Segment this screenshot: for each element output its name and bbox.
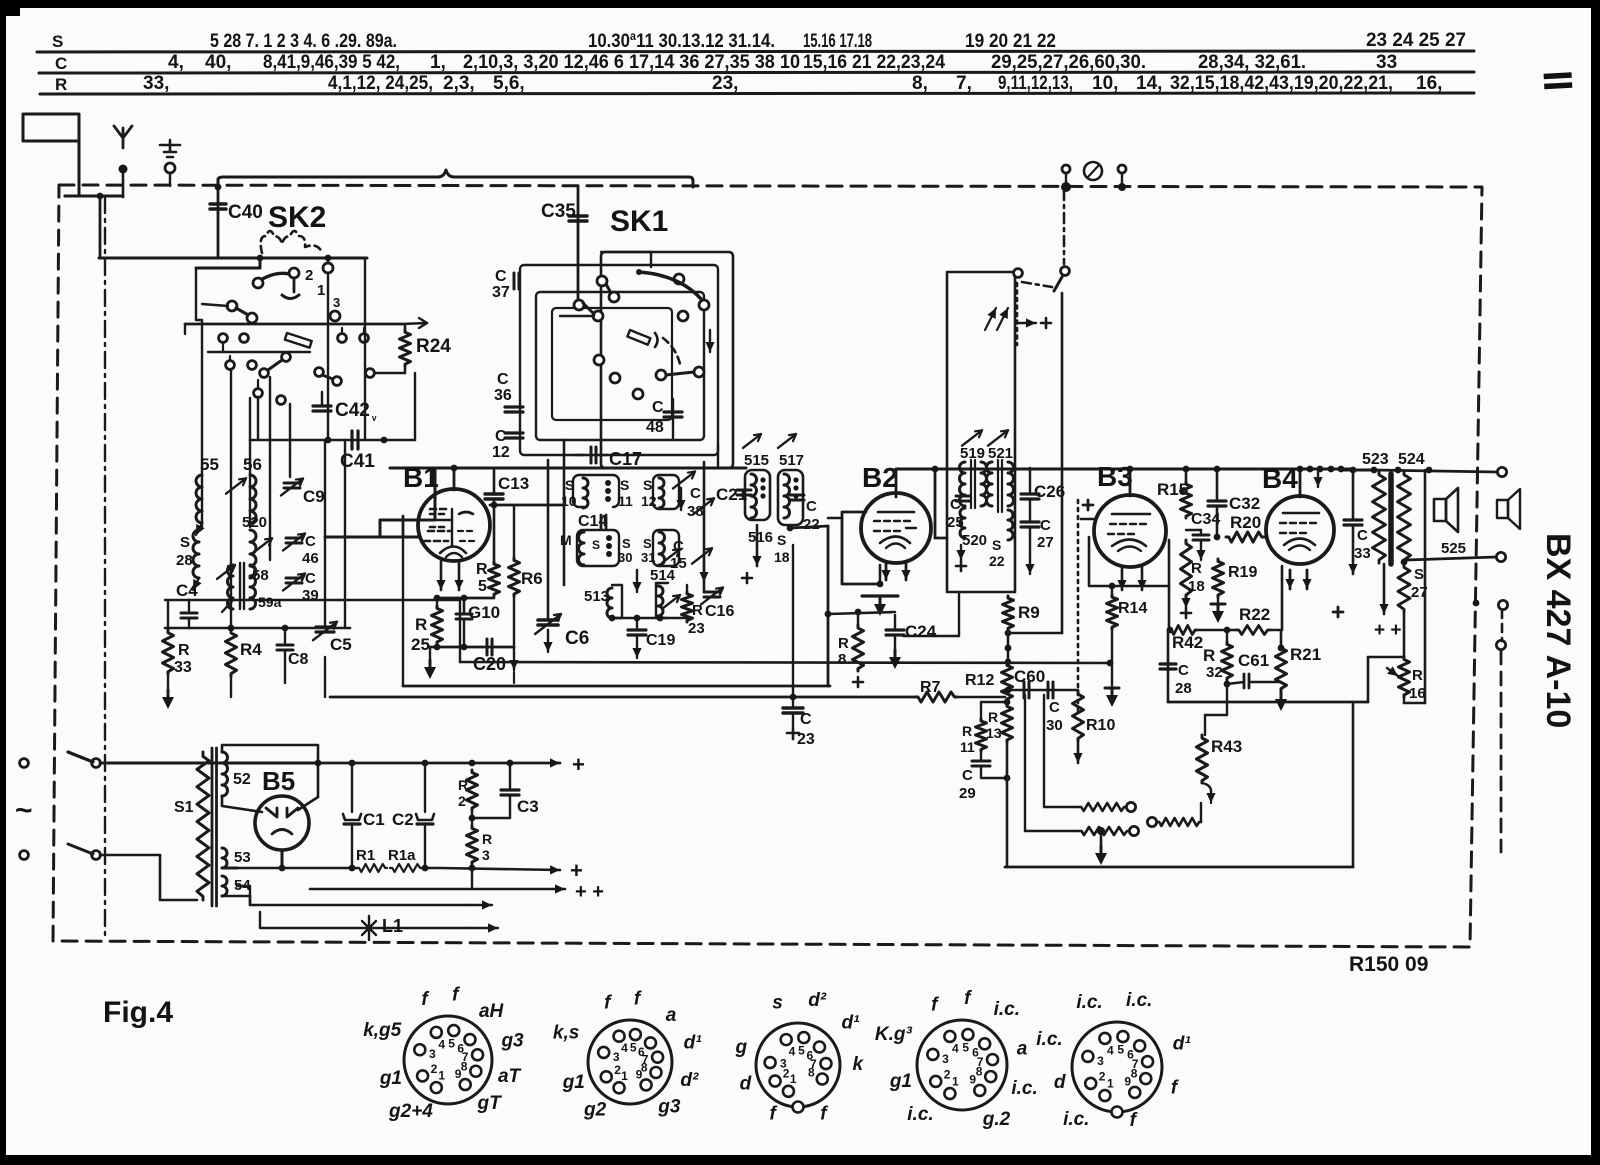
svg-text:2: 2 [458, 793, 466, 809]
svg-text:d: d [740, 1074, 752, 1095]
capacitor C20 [473, 639, 506, 674]
svg-text:4,1,12, 24,25,: 4,1,12, 24,25, [328, 73, 433, 94]
svg-text:517: 517 [779, 452, 804, 469]
svg-text:R43: R43 [1211, 737, 1242, 756]
wire B2 plate lead [896, 466, 947, 538]
svg-text:4: 4 [438, 1037, 445, 1051]
svg-text:R: R [988, 709, 998, 725]
svg-text:g1: g1 [562, 1072, 585, 1093]
svg-text:3: 3 [333, 295, 340, 310]
resistor R1a [388, 847, 583, 883]
switch mains 2 [20, 844, 197, 900]
resistor R43 [1197, 702, 1243, 803]
svg-text:53: 53 [234, 849, 251, 866]
resistor R42 [1167, 626, 1236, 653]
wire chassis dash-dot line [104, 197, 106, 941]
wire B2 cathode arrows [880, 562, 911, 584]
svg-text:523: 523 [1362, 451, 1389, 468]
capacitor C27 [1021, 499, 1054, 574]
capacitor C33 [1344, 467, 1371, 574]
wire dashed chassis border [53, 185, 1482, 947]
svg-text:C: C [652, 399, 664, 416]
svg-text:C24: C24 [905, 622, 937, 641]
resistor R15 [1157, 466, 1192, 518]
svg-text:1,: 1, [430, 52, 446, 73]
svg-text:C: C [1049, 699, 1060, 716]
svg-text:R42: R42 [1172, 633, 1203, 652]
node R row numbers [143, 73, 1442, 94]
svg-text:22: 22 [989, 553, 1005, 569]
svg-text:a: a [666, 1005, 677, 1026]
svg-text:2: 2 [431, 1062, 438, 1076]
resistor R14 [1105, 586, 1147, 707]
capacitor C42 [313, 392, 377, 423]
svg-text:B1: B1 [403, 462, 439, 493]
svg-text:SK2: SK2 [268, 201, 326, 234]
capacitor C38 [687, 485, 714, 520]
svg-text:33: 33 [1354, 545, 1371, 562]
svg-text:R9: R9 [1018, 603, 1040, 622]
svg-text:C: C [55, 54, 67, 73]
svg-text:1: 1 [438, 1069, 445, 1083]
resistor R8 [838, 612, 864, 687]
svg-text:3: 3 [1097, 1054, 1104, 1068]
transformer S1 primary [174, 752, 209, 900]
svg-text:1: 1 [317, 282, 325, 299]
switch SK2 contacts [185, 258, 427, 460]
svg-text:23 24 25 27: 23 24 25 27 [1366, 30, 1466, 51]
svg-text:S: S [777, 532, 786, 548]
svg-text:C: C [806, 498, 817, 515]
svg-text:9,11,12,13,: 9,11,12,13, [998, 73, 1073, 94]
svg-text:31: 31 [641, 550, 655, 565]
transformer S13 [584, 585, 622, 618]
wire B3 plate stem [1127, 466, 1134, 496]
svg-text:8: 8 [1131, 1067, 1138, 1081]
svg-text:22: 22 [803, 516, 820, 533]
resistor R4 [226, 628, 263, 697]
svg-text:7,: 7, [956, 73, 972, 94]
svg-text:18: 18 [1188, 578, 1205, 595]
tube B3 [1094, 461, 1166, 567]
svg-text:C: C [305, 533, 316, 550]
svg-text:2,3,: 2,3, [443, 73, 475, 94]
resistor R6 [509, 505, 543, 647]
svg-text:30: 30 [1046, 717, 1063, 734]
capacitor C60 [1005, 667, 1079, 831]
ground below R25 [424, 647, 436, 679]
resistor R9 [1003, 592, 1063, 665]
svg-text:1: 1 [952, 1075, 959, 1089]
wire plus-plus line [310, 868, 604, 903]
switch SK1 rotor contacts [560, 269, 715, 399]
svg-text:C19: C19 [646, 632, 675, 649]
svg-text:23: 23 [688, 620, 705, 637]
transformer 58/59a [217, 563, 282, 612]
svg-text:k,s: k,s [553, 1023, 579, 1044]
svg-text:C32: C32 [1229, 494, 1260, 513]
svg-text:14,: 14, [1136, 73, 1162, 94]
tube B1 [403, 462, 490, 561]
svg-text:C1: C1 [363, 810, 385, 829]
svg-text:5: 5 [962, 1040, 969, 1054]
resistor R24 [400, 324, 452, 373]
svg-text:28,34, 32,61.: 28,34, 32,61. [1198, 52, 1306, 73]
capacitor C35 [541, 187, 587, 305]
svg-text:R1: R1 [356, 847, 375, 864]
wire B1 cathode arrows [436, 561, 463, 590]
svg-text:29,25,27,26,60,30.: 29,25,27,26,60,30. [991, 52, 1146, 73]
capacitor C39 [283, 570, 319, 604]
wire B3 cathode arrows [1117, 567, 1146, 590]
svg-text:16,: 16, [1416, 73, 1442, 94]
capacitor C48 [646, 399, 682, 440]
svg-text:R: R [55, 75, 67, 94]
svg-text:M: M [560, 532, 572, 548]
capacitor C21 [716, 485, 751, 504]
resistor R2 [458, 770, 478, 810]
tube B5 [255, 766, 309, 868]
svg-text:8: 8 [808, 1066, 815, 1080]
ground B1 screen [509, 647, 518, 683]
svg-text:5: 5 [1117, 1042, 1124, 1056]
svg-text:9: 9 [636, 1067, 643, 1081]
svg-text:4: 4 [1107, 1043, 1114, 1057]
svg-text:C16: C16 [705, 603, 734, 620]
tube socket 5 bottom pin [1112, 1107, 1123, 1118]
svg-text:a: a [1017, 1038, 1028, 1059]
svg-text:516: 516 [748, 529, 773, 546]
node C row numbers [168, 52, 1397, 73]
svg-text:9: 9 [455, 1067, 462, 1081]
capacitor C29 [959, 742, 1010, 867]
node terminal left [1061, 165, 1071, 192]
svg-text:5: 5 [478, 578, 487, 595]
svg-text:10,: 10, [1092, 73, 1118, 94]
resistor R13 [981, 699, 1013, 742]
wire bottom box right [1352, 704, 1355, 867]
capacitor C17 [575, 447, 642, 469]
svg-text:5: 5 [448, 1036, 455, 1050]
tube B2 [861, 462, 931, 563]
switch SK1 wiring boxes [520, 252, 733, 468]
svg-text:R: R [476, 561, 488, 578]
svg-text:519: 519 [960, 445, 985, 462]
resistor R23 [682, 592, 705, 637]
inductor 56 [226, 455, 262, 523]
wire band indicator arrows [962, 308, 1008, 446]
resistor R22 [1236, 605, 1281, 635]
resistor R33 [163, 600, 192, 676]
node terminal right [1118, 165, 1126, 191]
svg-text:C8: C8 [288, 651, 309, 668]
svg-text:C: C [962, 767, 973, 784]
wire main grid bus [390, 467, 746, 470]
svg-text:R: R [482, 831, 492, 847]
svg-text:S: S [180, 534, 190, 551]
wire S row rule [37, 51, 1474, 52]
transformer M [560, 530, 619, 566]
svg-text:aH: aH [479, 1001, 505, 1022]
svg-text:25: 25 [947, 514, 964, 531]
svg-text:12: 12 [641, 493, 657, 509]
resistor R1 [237, 847, 475, 872]
wire plate rail [896, 468, 1352, 471]
switch dial lamp [1014, 190, 1070, 291]
svg-text:32,15,18,42,43,19,20,22,21,: 32,15,18,42,43,19,20,22,21, [1170, 73, 1393, 94]
svg-text:i.c.: i.c. [1011, 1078, 1037, 1099]
svg-text:C: C [673, 538, 684, 555]
transformer S21/S22 [987, 445, 1014, 569]
svg-text:d: d [1054, 1072, 1066, 1093]
tube socket 3 bottom pin [793, 1102, 804, 1113]
svg-text:R14: R14 [1118, 600, 1147, 617]
svg-text:4: 4 [952, 1041, 959, 1055]
svg-text:d¹: d¹ [841, 1012, 860, 1033]
svg-text:B4: B4 [1262, 463, 1298, 494]
capacitor C30 [1046, 699, 1063, 734]
svg-text:513: 513 [584, 588, 609, 605]
svg-text:+: + [572, 752, 585, 777]
wire dial lamp feed [1017, 283, 1062, 592]
svg-text:C4: C4 [176, 581, 198, 600]
svg-text:R: R [1412, 667, 1423, 684]
svg-text:40,: 40, [205, 52, 231, 73]
capacitor C36 [494, 371, 523, 412]
svg-text:aT: aT [498, 1066, 522, 1087]
svg-text:2: 2 [944, 1068, 951, 1082]
svg-text:1: 1 [790, 1072, 797, 1086]
resistor R18 [1181, 540, 1205, 618]
transformer S12 [641, 472, 695, 510]
svg-text:33: 33 [174, 659, 192, 676]
svg-text:S1: S1 [174, 799, 194, 816]
svg-text:46: 46 [302, 550, 319, 567]
svg-text:i.c.: i.c. [1076, 992, 1102, 1013]
capacitor C12 [492, 428, 523, 461]
capacitor C19 [628, 618, 675, 658]
svg-text:S: S [992, 537, 1001, 553]
svg-text:g1: g1 [379, 1068, 402, 1089]
svg-text:~: ~ [15, 794, 33, 827]
capacitor C14 [578, 513, 607, 530]
svg-text:55: 55 [200, 455, 219, 474]
svg-text:R20: R20 [1230, 513, 1261, 532]
capacitor C9 [281, 479, 325, 506]
capacitor C34 [1186, 511, 1220, 560]
svg-text:2: 2 [305, 267, 313, 284]
svg-text:R: R [178, 642, 190, 659]
svg-text:g3: g3 [657, 1096, 681, 1117]
wire R16 feed [1368, 657, 1404, 702]
svg-text:8,41,9,46,39 5 42,: 8,41,9,46,39 5 42, [263, 52, 400, 73]
wire SK2 top bus [99, 255, 367, 262]
speaker 525 [1434, 488, 1466, 557]
svg-text:5,6,: 5,6, [493, 73, 525, 94]
svg-text:28: 28 [176, 552, 193, 569]
svg-text:11: 11 [960, 739, 975, 755]
wire left links [165, 600, 350, 697]
svg-text:B2: B2 [862, 462, 898, 493]
wire SK2 down leads [202, 258, 415, 470]
svg-text:R: R [1203, 646, 1215, 665]
svg-text:C2: C2 [392, 810, 414, 829]
svg-text:C35: C35 [541, 201, 576, 222]
wire B3 cathode box [1089, 537, 1169, 630]
svg-text:4: 4 [621, 1041, 628, 1055]
inductor S28 [176, 530, 202, 590]
svg-text:s: s [772, 993, 783, 1014]
resistor R3 [467, 810, 493, 868]
svg-text:B5: B5 [262, 766, 295, 796]
svg-text:i.c.: i.c. [907, 1104, 933, 1125]
svg-text:33,: 33, [143, 73, 169, 94]
wire heater line [237, 886, 492, 910]
svg-text:d¹: d¹ [684, 1033, 703, 1054]
svg-text:5 28 7. 1 2 3 4. 6 .29. 89a.: 5 28 7. 1 2 3 4. 6 .29. 89a. [210, 31, 397, 52]
svg-text:Fig.4: Fig.4 [103, 996, 173, 1029]
capacitor C4 [176, 581, 198, 628]
svg-text:28: 28 [1175, 680, 1192, 697]
wire bottom bus 2 [330, 696, 917, 699]
svg-text:i.c.: i.c. [1063, 1109, 1089, 1130]
resistor R25 [411, 598, 443, 654]
svg-text:3: 3 [942, 1052, 949, 1066]
svg-text:S: S [622, 536, 631, 551]
inductor 520 [242, 514, 272, 578]
tube B5 cathode lead [279, 850, 286, 871]
svg-text:R1a: R1a [388, 847, 416, 864]
svg-text:9: 9 [969, 1073, 976, 1087]
svg-text:27: 27 [1037, 534, 1054, 551]
wire B4 top net [1262, 466, 1344, 537]
svg-text:36: 36 [494, 387, 512, 404]
svg-text:15,16 21 22,23,24: 15,16 21 22,23,24 [803, 52, 945, 73]
svg-text:8: 8 [461, 1059, 468, 1073]
svg-text:C17: C17 [609, 449, 642, 469]
capacitor C26 [1021, 468, 1065, 501]
capacitor C37 [492, 268, 519, 301]
capacitor C32 [1208, 466, 1260, 537]
resistor heater chain 2 [1079, 826, 1139, 835]
transformer S19/S20 [960, 445, 988, 549]
antenna plate [23, 114, 79, 141]
node equals mark [1544, 72, 1573, 89]
ground below B2 [862, 596, 898, 616]
svg-text:C5: C5 [330, 635, 352, 654]
resistor R21 [1275, 630, 1321, 711]
capacitor C16 [701, 588, 734, 620]
svg-text:29: 29 [959, 785, 976, 802]
svg-text:B3: B3 [1097, 461, 1133, 492]
svg-text:514: 514 [650, 567, 676, 584]
resistor R19 [1211, 559, 1257, 623]
inductor 55 [196, 455, 219, 535]
svg-text:C: C [1040, 517, 1051, 534]
wire R row rule [40, 93, 1474, 94]
svg-text:521: 521 [988, 445, 1013, 462]
svg-text:g2: g2 [583, 1100, 607, 1121]
svg-text:11: 11 [618, 493, 633, 509]
svg-text:C: C [497, 371, 509, 388]
resistor R12 [965, 663, 1013, 701]
capacitor C23 [783, 545, 815, 748]
svg-text:R19: R19 [1228, 564, 1257, 581]
ground S16 [742, 525, 762, 583]
svg-text:525: 525 [1441, 540, 1466, 557]
transformer S30/S31 [618, 530, 680, 592]
transformer S3 [222, 848, 251, 868]
svg-text:3: 3 [429, 1047, 436, 1061]
svg-text:BX 427 A-10: BX 427 A-10 [1539, 533, 1577, 728]
transformer S4 [222, 876, 251, 905]
wire bottom bus 3 [955, 696, 1005, 699]
svg-text:S: S [565, 477, 574, 493]
wire top brace [215, 170, 693, 190]
svg-text:C40: C40 [228, 202, 263, 223]
svg-text:C: C [950, 496, 961, 513]
resistor R11 [960, 702, 987, 755]
transformer S17/S18 [774, 434, 804, 565]
svg-text:48: 48 [646, 419, 664, 436]
svg-text:C: C [690, 485, 701, 502]
speaker right [1497, 489, 1520, 529]
capacitor C22 [790, 495, 820, 533]
resistor R20 [1214, 513, 1267, 542]
svg-text:S: S [592, 538, 600, 552]
svg-text:K.g³: K.g³ [875, 1024, 913, 1045]
svg-text:i.c.: i.c. [1036, 1029, 1062, 1050]
svg-text:d¹: d¹ [1173, 1034, 1192, 1055]
svg-text:k,g5: k,g5 [363, 1020, 401, 1041]
svg-text:+ +: + + [1374, 620, 1401, 641]
capacitor C15 [670, 538, 712, 582]
capacitor C3 [469, 763, 539, 821]
ground below R33 [162, 674, 174, 709]
svg-text:ᵥ: ᵥ [371, 409, 377, 423]
svg-text:25: 25 [411, 635, 430, 654]
capacitor C28 [1160, 630, 1192, 702]
wire AVC dotted line [1078, 500, 1094, 712]
svg-text:R: R [415, 615, 427, 634]
svg-text:2: 2 [614, 1063, 621, 1077]
svg-text:3: 3 [780, 1057, 787, 1071]
capacitor G10 [456, 598, 500, 647]
capacitor C8 [277, 645, 309, 683]
svg-text:R4: R4 [240, 640, 262, 659]
wire IF block links [548, 440, 718, 621]
switch SK2 wafer outline [261, 231, 322, 253]
capacitor C24 [886, 615, 937, 669]
svg-text:10.30ª11 30.13.12 31.14.: 10.30ª11 30.13.12 31.14. [588, 31, 775, 52]
svg-text:515: 515 [744, 452, 769, 469]
capacitor C61 [1227, 651, 1281, 688]
ground terminal [160, 140, 180, 186]
capacitor C5 [313, 622, 352, 654]
svg-text:C3: C3 [517, 797, 539, 816]
tube socket diagram 5 [1036, 990, 1191, 1131]
svg-text:59a: 59a [258, 594, 282, 610]
tube B4 [1262, 463, 1334, 564]
svg-text:13: 13 [986, 725, 1002, 741]
svg-text:g1: g1 [889, 1071, 912, 1092]
svg-text:23,: 23, [712, 73, 738, 94]
wire tone box bottom [1168, 701, 1368, 704]
svg-text:R12: R12 [965, 672, 994, 689]
svg-text:R: R [1191, 560, 1202, 577]
svg-text:52: 52 [233, 771, 251, 788]
inductor S27 [1398, 564, 1428, 657]
